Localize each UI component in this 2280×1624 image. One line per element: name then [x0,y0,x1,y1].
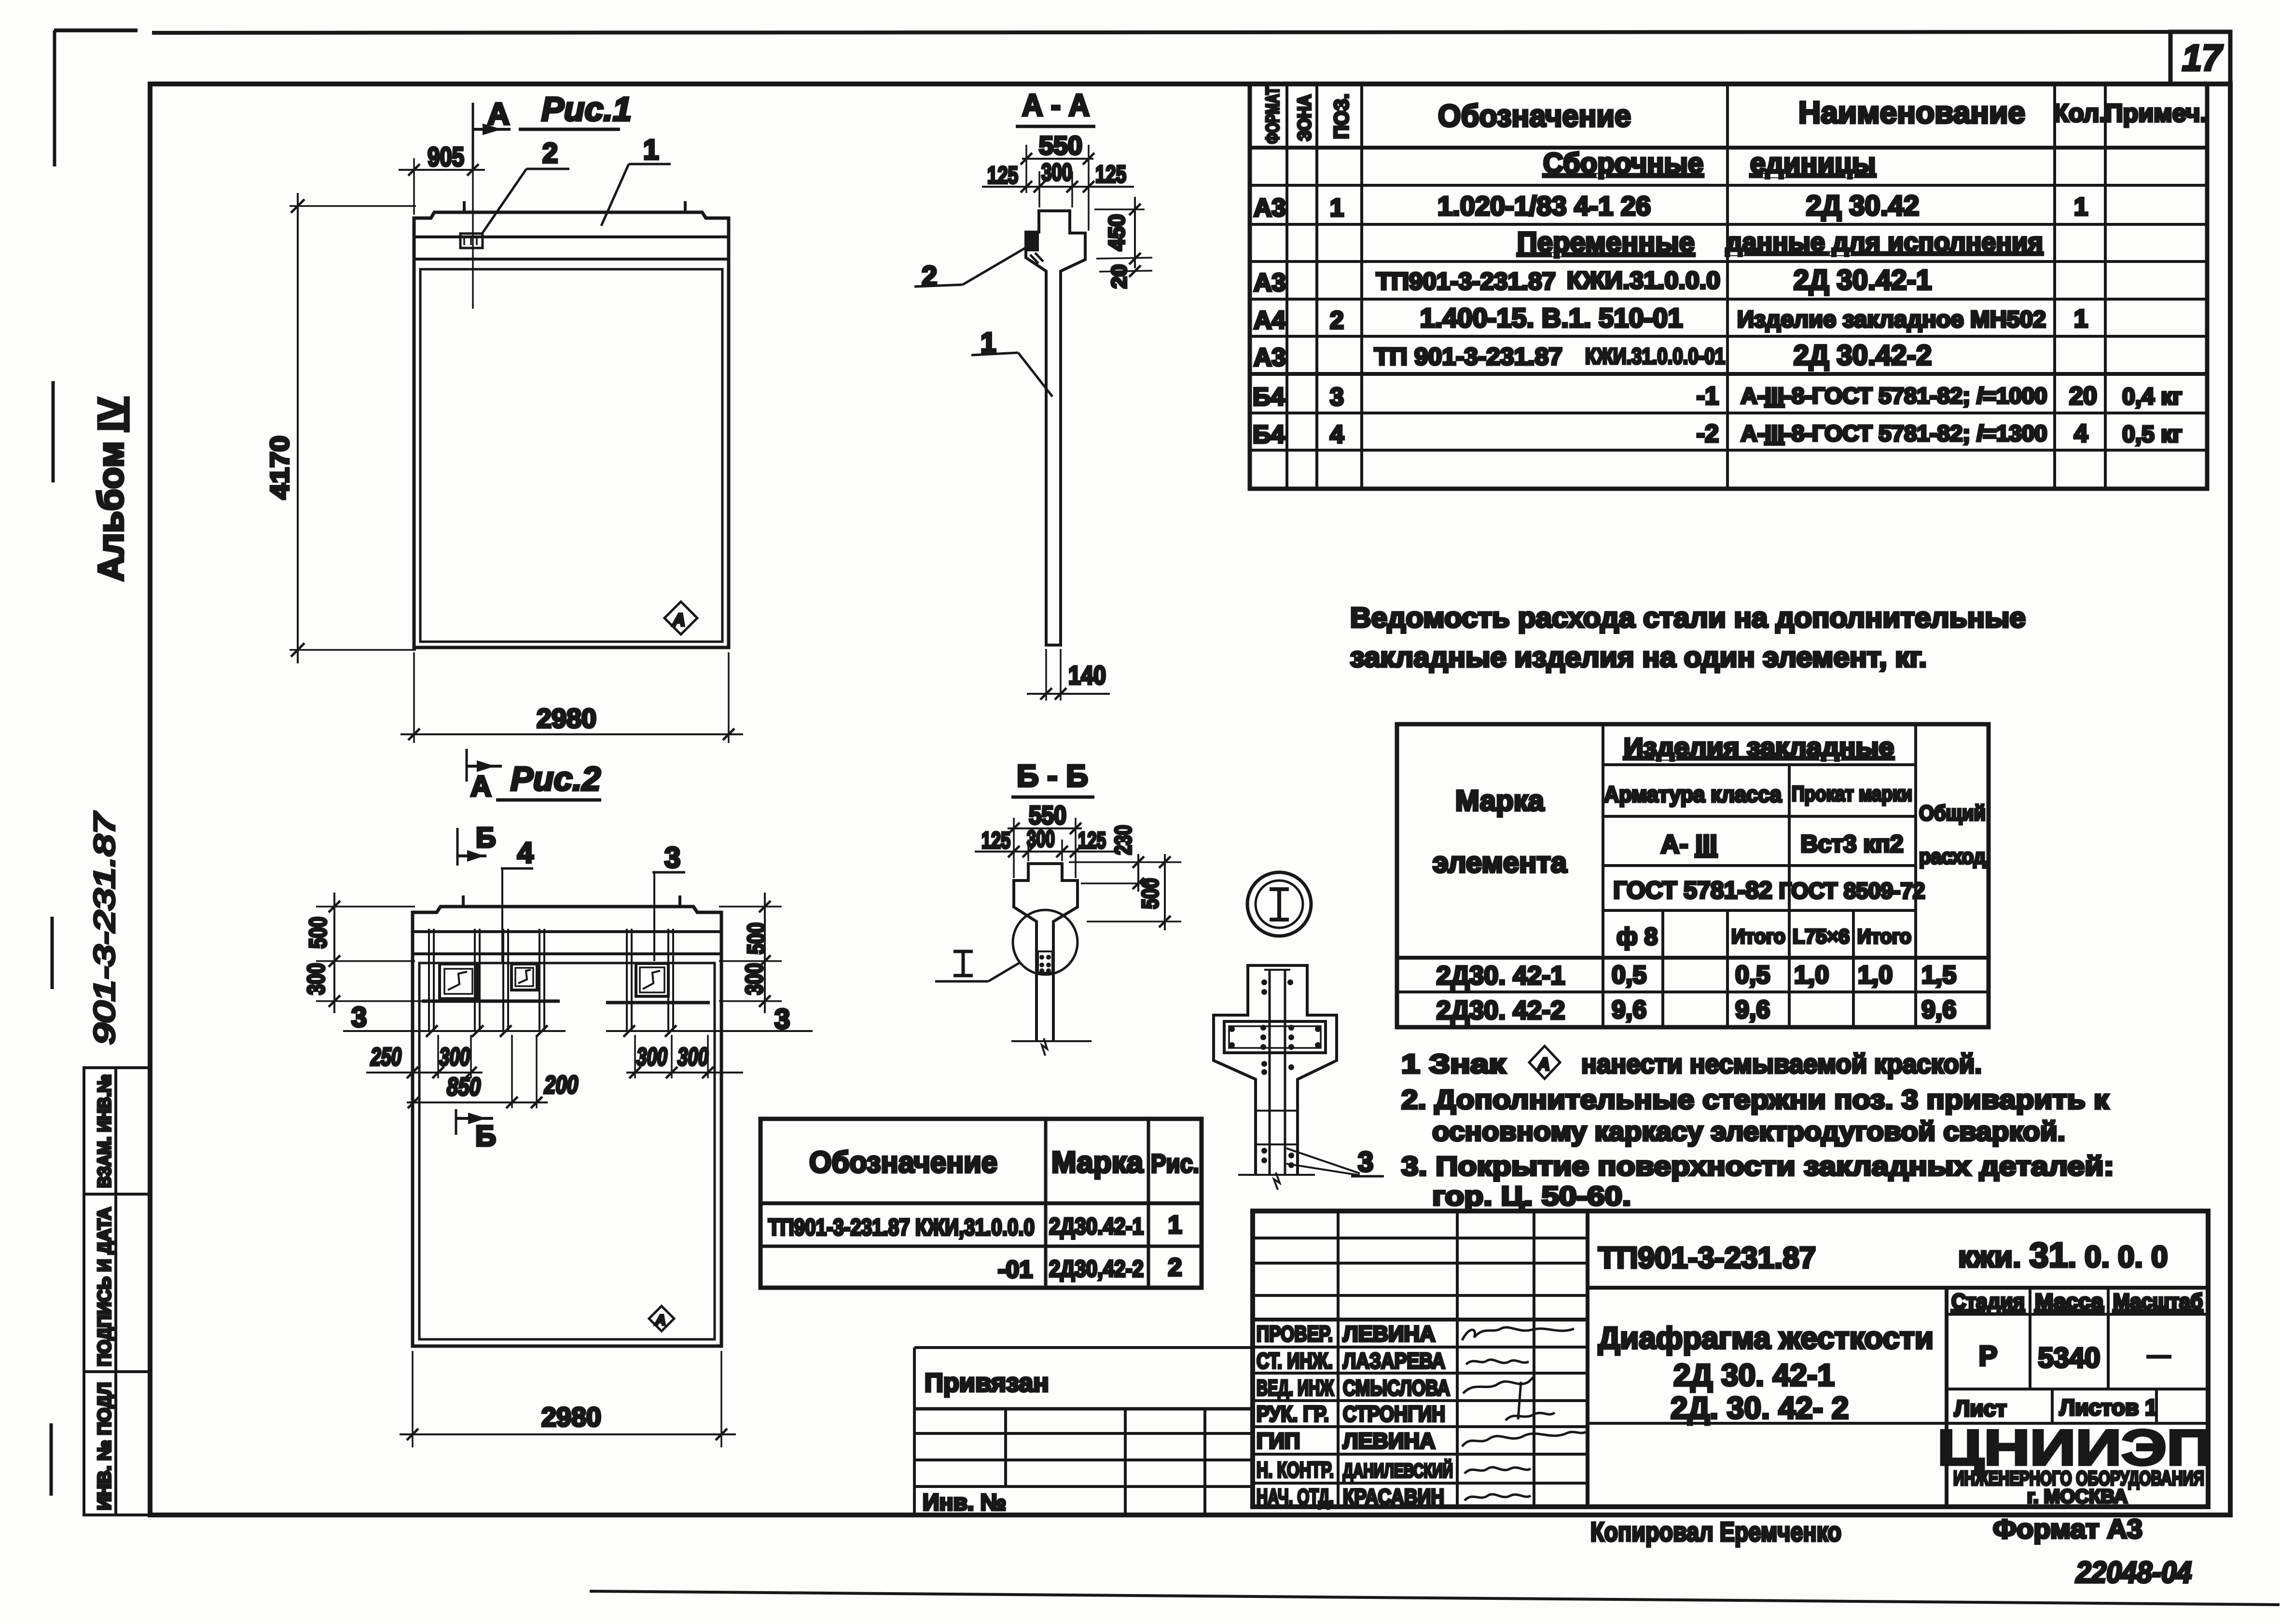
svg-text:ГИП: ГИП [1257,1429,1300,1453]
svg-text:Рис.: Рис. [1151,1149,1199,1178]
svg-text:Инв. №: Инв. № [923,1490,1006,1515]
svg-text:2Д30. 42-1: 2Д30. 42-1 [1437,961,1565,990]
svg-text:22048-04: 22048-04 [2075,1556,2192,1589]
svg-text:РУК. ГР.: РУК. ГР. [1257,1402,1329,1426]
svg-text:2. Дополнительные стержни: 2. Дополнительные стержни поз. 3 привари… [1401,1084,2109,1115]
svg-text:2: 2 [542,138,558,169]
detail I rebar pair [1270,970,1285,1176]
fig2 dim 2980 extension lines [412,1351,414,1447]
stamp signatures [1462,1327,1586,1500]
section B-B dim 230 [1069,862,1181,883]
stamp right vertical [1945,1288,1948,1507]
section B-B profile outline [1014,864,1078,1041]
svg-text:125: 125 [981,828,1010,853]
section A-A dim 550 [1022,158,1093,160]
svg-text:элемента: элемента [1433,846,1567,879]
svg-text:550: 550 [1039,131,1082,160]
page top rule [152,32,2230,33]
svg-text:3. Покрытие поверхности з: 3. Покрытие поверхности закладных детале… [1401,1151,2114,1181]
fig1 section arrow A [473,128,511,131]
svg-text:Б: Б [475,1120,496,1152]
svg-text:Б: Б [476,822,496,853]
fig1 embedded plate item 2 [460,234,483,248]
svg-text:Прокат марки: Прокат марки [1792,782,1912,806]
svg-text:550: 550 [1029,801,1066,830]
svg-text:Н. КОНТР.: Н. КОНТР. [1257,1458,1334,1482]
fig2 top band line 1 [413,930,721,933]
detail I weld dots [1229,979,1321,1168]
svg-text:Р: Р [1979,1340,1998,1372]
oboz table grid [760,1119,1202,1288]
section B-B extension verticals [1014,818,1076,878]
section A-A embedded plate item 2 hatched [1026,233,1039,251]
svg-text:4170: 4170 [265,436,294,499]
svg-text:1: 1 [643,134,659,165]
svg-text:ГОСТ 5781-82: ГОСТ 5781-82 [1613,877,1772,904]
fig1 dim 2980 line [401,733,743,735]
svg-text:гор. Ц. 50-60.: гор. Ц. 50-60. [1432,1181,1631,1211]
svg-text:0,5: 0,5 [1735,961,1770,989]
svg-text:300: 300 [1041,159,1072,186]
detail I base line with break [1238,1174,1315,1176]
stamp names [1343,1321,1453,1509]
stamp outer [1253,1211,2208,1507]
svg-text:Масса: Масса [2035,1290,2104,1313]
stamp roles [1257,1321,1334,1509]
fig2 embedded square 2 [511,964,537,990]
svg-text:ПОДПИСЬ И ДАТА: ПОДПИСЬ И ДАТА [95,1207,115,1366]
fig2 bar end ticks on 3-3 [426,1025,677,1037]
svg-text:300: 300 [677,1043,708,1071]
svg-text:закладные изделия на один: закладные изделия на один элемент, кг. [1350,642,1927,673]
svg-text:2Д 30.42: 2Д 30.42 [1806,190,1920,221]
fig1 dim 4170 extension lines [290,205,416,207]
svg-text:Изделие закладное МН502: Изделие закладное МН502 [1737,307,2046,332]
fig2 bottom dims 850 200 [512,1035,537,1108]
page edge mark left vertical [51,30,55,1496]
fig2 top band line 2 [413,952,721,955]
svg-text:450: 450 [1104,214,1129,251]
section A-A dim 20 [1099,271,1152,272]
fig2 bottom dims 250 300 [438,1035,471,1078]
svg-text:0,5 кг: 0,5 кг [2122,422,2182,447]
fig1 top band line 2 [414,258,729,261]
svg-text:1,0: 1,0 [1858,961,1893,989]
svg-text:2Д 30.42-2: 2Д 30.42-2 [1794,340,1932,371]
section A-A extension lines verticals [1026,145,1089,231]
svg-text:901-3-231.87: 901-3-231.87 [88,811,121,1045]
svg-text:А: А [487,96,510,131]
svg-text:Рис.1: Рис.1 [541,90,632,128]
fig2 panel outline [413,907,721,1346]
section B-B base line with break [1011,1040,1092,1042]
fig2 rebar pairs item 3 and 4 [429,929,673,1031]
svg-text:СТ. ИНЖ.: СТ. ИНЖ. [1257,1349,1333,1373]
fig2 lifting stubs [463,895,680,907]
privyazan block grid [914,1348,1253,1516]
fig2 embedded square 1 [440,964,477,999]
svg-text:ТП901-3-231.87 КЖИ,31.0.0.0: ТП901-3-231.87 КЖИ,31.0.0.0 [768,1215,1035,1240]
svg-text:Диафрагма жесткости: Диафрагма жесткости [1598,1321,1934,1355]
section B-B dim 125 300 125 [975,851,1115,853]
svg-text:Вст3 кп2: Вст3 кп2 [1800,830,1903,857]
detail I circled symbol [1247,872,1311,936]
svg-text:500: 500 [304,917,332,949]
fig1 section cut line A [472,103,474,169]
fig2 left dims 500 300 [316,907,425,1001]
svg-text:250: 250 [370,1043,401,1071]
svg-text:СМЫСЛОВА: СМЫСЛОВА [1343,1376,1450,1400]
fig2 horizontal bar line [422,1001,710,1003]
svg-text:Лист: Лист [1954,1396,2007,1421]
svg-text:2Д 30. 42-1: 2Д 30. 42-1 [1673,1358,1835,1392]
svg-text:А: А [655,1312,666,1328]
detail I leader 3 [1286,1148,1360,1173]
stamp stadia block grid [1588,1288,2208,1423]
svg-text:А - А: А - А [1022,88,1090,123]
fig1 panel outline [414,212,729,647]
fig2 dim 2980 line [400,1433,736,1435]
svg-text:1,0: 1,0 [1794,961,1829,989]
svg-text:140: 140 [1068,661,1106,690]
svg-text:А3: А3 [1254,344,1285,372]
svg-text:ВЕД. ИНЖ: ВЕД. ИНЖ [1257,1376,1334,1400]
svg-text:300: 300 [1027,826,1055,852]
svg-text:1.020-1/83 4-1 26: 1.020-1/83 4-1 26 [1437,191,1651,221]
svg-text:20: 20 [2069,382,2097,410]
svg-text:850: 850 [447,1073,481,1101]
svg-text:данные для исполнения: данные для исполнения [1726,228,2043,257]
section B-B detail circle [1013,910,1078,975]
svg-text:125: 125 [1078,828,1106,853]
svg-text:А-III-8-ГОСТ 5781-82; l=1300: А-III-8-ГОСТ 5781-82; l=1300 [1741,421,2047,446]
svg-text:НАЧ. ОТД.: НАЧ. ОТД. [1257,1485,1334,1509]
svg-text:300: 300 [741,963,768,995]
svg-text:-1: -1 [1697,382,1719,410]
svg-text:А- III: А- III [1661,830,1717,859]
svg-text:Рис.2: Рис.2 [511,760,601,798]
svg-text:А-III-8-ГОСТ 5781-82; l=1000: А-III-8-ГОСТ 5781-82; l=1000 [1741,383,2047,408]
svg-text:3: 3 [664,841,680,874]
section B-B dim 550 [1008,827,1082,829]
page edge mark top-left [54,28,138,32]
svg-text:905: 905 [428,141,464,172]
svg-text:4: 4 [2074,420,2088,448]
svg-text:КРАСАВИН: КРАСАВИН [1343,1485,1444,1509]
svg-text:2980: 2980 [541,1402,601,1432]
svg-text:300: 300 [636,1043,667,1071]
steel table grid [1397,724,1989,1027]
svg-text:основному каркасу электродуг: основному каркасу электродуговой сваркой… [1432,1116,2065,1146]
stamp left grid [1253,1211,1588,1507]
svg-text:Общий: Общий [1919,801,1986,825]
svg-text:Обозначение: Обозначение [809,1146,997,1179]
detail I outline [1214,965,1337,1176]
fig1 dim 4170 line [297,193,299,663]
svg-text:5340: 5340 [2038,1342,2100,1374]
svg-text:ТП901-3-231.87: ТП901-3-231.87 [1598,1241,1816,1275]
svg-text:1,5: 1,5 [1921,961,1956,989]
fig2 right dims 500 300 [719,907,782,1001]
svg-text:кжи. 31. 0. 0. 0: кжи. 31. 0. 0. 0 [1958,1236,2168,1275]
svg-text:ЛАЗАРЕВА: ЛАЗАРЕВА [1343,1349,1445,1373]
svg-text:ПРОВЕР.: ПРОВЕР. [1257,1321,1333,1346]
svg-text:Б4: Б4 [1253,421,1285,449]
svg-text:ЛЕВИНА: ЛЕВИНА [1343,1321,1435,1346]
svg-text:300: 300 [303,963,330,995]
svg-text:0,4 кг: 0,4 кг [2122,384,2182,410]
svg-text:2: 2 [1330,306,1344,334]
section A-A dim 140 [1045,649,1047,701]
svg-text:3: 3 [774,1004,790,1035]
svg-text:Привязан: Привязан [925,1368,1049,1397]
svg-text:Сборочные: Сборочные [1543,148,1703,179]
svg-text:А: А [1537,1054,1550,1074]
svg-text:Обозначение: Обозначение [1438,98,1631,133]
svg-text:Наименование: Наименование [1798,95,2025,130]
svg-text:ВЗАМ. ИНВ.№: ВЗАМ. ИНВ.№ [95,1074,115,1188]
svg-text:4: 4 [1330,421,1344,449]
fig2 embedded square 3 [636,963,668,996]
svg-text:ТП901-3-231.87: ТП901-3-231.87 [1376,268,1556,295]
fig1 lifting stubs [464,201,685,212]
svg-text:2Д. 30. 42- 2: 2Д. 30. 42- 2 [1671,1390,1849,1425]
detail I embedded plate [1224,1021,1326,1053]
svg-text:Б4: Б4 [1253,383,1285,411]
svg-text:ЗОНА: ЗОНА [1295,95,1315,141]
svg-text:1 Знак: 1 Знак [1401,1048,1506,1079]
svg-text:Кол.: Кол. [2053,99,2106,127]
svg-text:Итого: Итого [1857,925,1911,948]
svg-text:1: 1 [1168,1211,1182,1239]
svg-text:3: 3 [1330,383,1344,411]
section A-A dim 450 [1094,208,1145,210]
svg-text:1.400-15. В.1. 510-01: 1.400-15. В.1. 510-01 [1420,303,1683,333]
fig1 quality mark diamond A [664,602,697,634]
fig2 quality mark diamond A [649,1306,674,1331]
svg-text:ЛЕВИНА: ЛЕВИНА [1343,1429,1435,1453]
svg-text:А: А [470,770,491,802]
svg-text:Формат А3: Формат А3 [1993,1514,2142,1544]
svg-text:ТП 901-3-231.87: ТП 901-3-231.87 [1374,343,1562,370]
svg-text:2Д30.42-1: 2Д30.42-1 [1049,1214,1144,1239]
fig2 inner border [419,963,715,1339]
svg-text:9,6: 9,6 [1921,996,1956,1024]
note 1 diamond A [1529,1046,1560,1079]
fig1 top band line 1 [414,235,729,238]
fig1 dim 905 [399,169,485,171]
svg-text:Копировал Еремченко: Копировал Еремченко [1590,1516,1841,1547]
svg-text:КЖИ.31.0.0.0: КЖИ.31.0.0.0 [1567,267,1720,294]
svg-text:г. МОСКВА: г. МОСКВА [2027,1486,2128,1507]
fig2 section line 3-3 [343,1030,813,1032]
svg-text:ПОЗ.: ПОЗ. [1330,94,1353,139]
svg-text:КЖИ.31.0.0.0-01: КЖИ.31.0.0.0-01 [1585,344,1725,369]
svg-text:Переменные: Переменные [1517,227,1695,258]
section B-B dim 500 [1087,921,1181,922]
svg-text:Арматура класса: Арматура класса [1604,782,1782,807]
svg-text:единицы: единицы [1750,148,1876,179]
page number box [2170,32,2230,84]
svg-text:А4: А4 [1254,306,1286,334]
margin boxes column [84,1068,150,1515]
svg-text:Марка: Марка [1051,1146,1144,1179]
svg-text:500: 500 [743,922,770,954]
svg-text:0,5: 0,5 [1612,961,1646,989]
svg-text:Б - Б: Б - Б [1017,758,1088,793]
svg-text:Стадия: Стадия [1951,1290,2025,1313]
svg-text:Альбом IV: Альбом IV [91,398,131,581]
section B-B leader I [953,951,973,976]
svg-text:-2: -2 [1697,420,1719,448]
fig2 right bottom dims 300 300 [635,1035,708,1078]
svg-text:Листов 1: Листов 1 [2059,1395,2157,1420]
svg-text:Масштаб: Масштаб [2113,1290,2203,1313]
svg-text:А: А [672,610,685,630]
fig1 inner border [420,269,722,642]
svg-text:расход: расход [1919,845,1986,868]
svg-text:3: 3 [1358,1146,1373,1178]
svg-text:300: 300 [439,1043,470,1071]
svg-text:2980: 2980 [537,703,596,733]
detail I web joint lines [1256,1111,1298,1144]
svg-text:2Д30,42-2: 2Д30,42-2 [1049,1256,1144,1282]
svg-text:Ведомость расхода стали на: Ведомость расхода стали на дополнительны… [1350,602,2026,633]
svg-text:200: 200 [544,1071,578,1099]
section A-A dim 125 300 125 [982,186,1134,188]
svg-text:ДАНИЛЕВСКИЙ: ДАНИЛЕВСКИЙ [1343,1459,1453,1482]
svg-text:Марка: Марка [1455,784,1545,817]
fig2 section letter A marker [466,749,468,782]
svg-text:1: 1 [2074,305,2088,333]
svg-text:ГОСТ 8509-72: ГОСТ 8509-72 [1779,878,1925,903]
svg-text:9,6: 9,6 [1612,996,1646,1024]
svg-text:А3: А3 [1254,269,1285,297]
svg-text:9,6: 9,6 [1735,996,1770,1024]
svg-text:230: 230 [1111,825,1136,855]
svg-text:Изделия закладные: Изделия закладные [1624,733,1894,761]
svg-text:2Д30. 42-2: 2Д30. 42-2 [1437,996,1565,1025]
svg-text:ф 8: ф 8 [1617,923,1658,950]
svg-text:ИНВ. № ПОДЛ: ИНВ. № ПОДЛ [95,1382,115,1510]
bottom paper edge [590,1591,2280,1605]
fig1 dim 2980 extension lines [413,652,415,743]
svg-text:4: 4 [517,837,534,869]
svg-text:Итого: Итого [1731,925,1785,948]
svg-text:125: 125 [1095,161,1126,188]
svg-text:1: 1 [1330,194,1344,222]
svg-text:20: 20 [1107,264,1131,289]
fig2 section letter Б marker bottom [455,1109,457,1135]
spec table grid [1250,84,2207,489]
svg-text:17: 17 [2182,38,2224,79]
section B-B embedded plate in web [1038,951,1052,973]
svg-text:1: 1 [2074,193,2088,221]
svg-text:2Д 30.42-1: 2Д 30.42-1 [1794,264,1932,296]
svg-text:А3: А3 [1254,194,1285,222]
svg-text:Примеч.: Примеч. [2105,99,2207,127]
svg-text:2: 2 [1168,1253,1182,1281]
svg-text:3: 3 [351,1002,367,1033]
section A-A profile outline [1026,211,1085,645]
svg-text:L75×6: L75×6 [1793,925,1850,948]
svg-text:500: 500 [1138,878,1163,909]
svg-text:125: 125 [987,162,1018,189]
svg-text:нанести несмываемой краской.: нанести несмываемой краской. [1581,1048,1982,1079]
stamp header divider [1588,1286,2208,1290]
svg-text:-01: -01 [998,1256,1033,1283]
svg-text:СТРОНГИН: СТРОНГИН [1343,1402,1445,1426]
svg-text:ФОРМАТ: ФОРМАТ [1263,87,1283,144]
